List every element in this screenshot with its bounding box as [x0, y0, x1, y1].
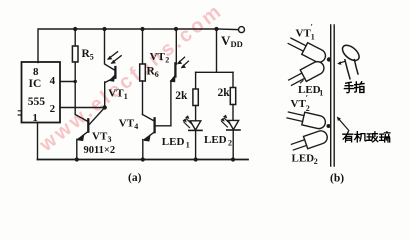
svg-text:2: 2	[165, 56, 169, 65]
svg-text:′: ′	[311, 23, 313, 32]
svg-text:′: ′	[306, 94, 308, 103]
svg-text:LED: LED	[298, 84, 321, 96]
svg-text:VT: VT	[296, 28, 312, 40]
svg-text:2: 2	[228, 139, 232, 148]
VDD label	[221, 33, 243, 49]
svg-text:2: 2	[50, 103, 56, 115]
node dot pin4	[74, 80, 77, 83]
svg-text:VT: VT	[108, 88, 124, 100]
LED1 emission arrows	[184, 119, 192, 128]
phototransistor VT1	[105, 29, 116, 71]
svg-text:(a): (a)	[128, 172, 142, 184]
svg-text:(b): (b)	[330, 173, 344, 185]
svg-text:LED: LED	[204, 134, 227, 146]
node dot top 2k branch	[214, 27, 218, 31]
svg-text:VT: VT	[291, 98, 307, 110]
svg-text:5: 5	[90, 53, 94, 62]
svg-text:VT: VT	[119, 118, 135, 130]
svg-text:2: 2	[314, 157, 318, 166]
IC U1 555 box	[22, 62, 61, 123]
node dot LED1	[194, 157, 198, 161]
transistor VT3	[75, 115, 88, 122]
svg-text:LED: LED	[292, 153, 315, 165]
pin 2 wire	[60, 107, 105, 109]
resistor R6	[142, 29, 144, 64]
pin ticks left	[18, 111, 21, 115]
svg-text:1: 1	[124, 92, 128, 101]
resistor R5	[74, 29, 76, 46]
phototransistor VT1' package	[287, 35, 328, 65]
2k feed branch	[196, 29, 233, 72]
label 有机玻璃 (plexiglass) hand-drawn	[343, 132, 390, 142]
IC labels	[28, 66, 56, 124]
caption (b)	[330, 173, 344, 185]
resistor 2k (second)	[232, 72, 234, 87]
node dot top R6	[140, 27, 144, 31]
LED1 diode	[190, 121, 201, 130]
VDD terminal	[239, 27, 245, 33]
svg-text:2k: 2k	[218, 87, 231, 99]
node dot VT3 emitter	[75, 157, 79, 161]
svg-text:www.elecfans.com: www.elecfans.com	[35, 0, 228, 157]
svg-text:6: 6	[155, 70, 159, 79]
contact mark lower	[327, 124, 331, 128]
svg-text:2k: 2k	[175, 90, 188, 102]
top rail	[38, 29, 217, 63]
light arrows into VT2	[178, 57, 188, 67]
svg-text:3: 3	[108, 135, 112, 144]
plexiglass sheet	[331, 25, 335, 166]
svg-text:VT: VT	[92, 131, 108, 143]
svg-text:1: 1	[186, 141, 190, 150]
caption (a)	[128, 172, 142, 184]
resistor 2k (first)	[195, 72, 197, 89]
node A (pin2 / VT1 emitter / VT3 base)	[103, 105, 107, 109]
svg-text:DD: DD	[231, 39, 243, 49]
pin 4 wire	[60, 81, 75, 83]
pin 1 wire	[37, 123, 39, 160]
svg-text:4: 4	[134, 122, 138, 131]
phototransistor VT2' package	[286, 109, 326, 130]
VDD lead	[217, 28, 239, 31]
contact mark upper	[327, 57, 331, 61]
svg-text:555: 555	[28, 96, 46, 108]
node dot top VT2	[174, 27, 178, 31]
svg-text:1: 1	[319, 89, 323, 98]
ground rail bottom	[38, 159, 249, 161]
svg-text:V: V	[221, 33, 231, 48]
svg-text:1: 1	[311, 33, 315, 42]
LED2 diode	[228, 120, 239, 129]
LED2' package	[290, 129, 329, 153]
value label 9011x2	[84, 145, 116, 156]
phototransistor VT2	[175, 29, 177, 64]
svg-text:4: 4	[50, 75, 56, 87]
light arrows into VT1	[108, 52, 121, 63]
finger arrow	[340, 61, 346, 63]
LED1' package	[287, 59, 326, 88]
node dot LED2	[231, 157, 235, 161]
svg-text:8: 8	[33, 66, 39, 78]
LED2 emission arrows	[222, 118, 230, 127]
node dot top R5	[73, 27, 77, 31]
svg-text:2: 2	[306, 104, 310, 113]
transistor VT4	[155, 125, 171, 127]
有机玻璃 leader arrow	[339, 119, 349, 131]
svg-text:LED: LED	[162, 136, 185, 148]
label 手指 (finger) hand-drawn	[344, 82, 364, 93]
node dot top VT1	[102, 27, 106, 31]
svg-text:IC: IC	[29, 78, 42, 90]
svg-text:9011×2: 9011×2	[84, 145, 116, 156]
finger outline	[340, 42, 362, 63]
svg-text:VT: VT	[150, 51, 166, 63]
node dot VT4 emitter	[141, 157, 145, 161]
